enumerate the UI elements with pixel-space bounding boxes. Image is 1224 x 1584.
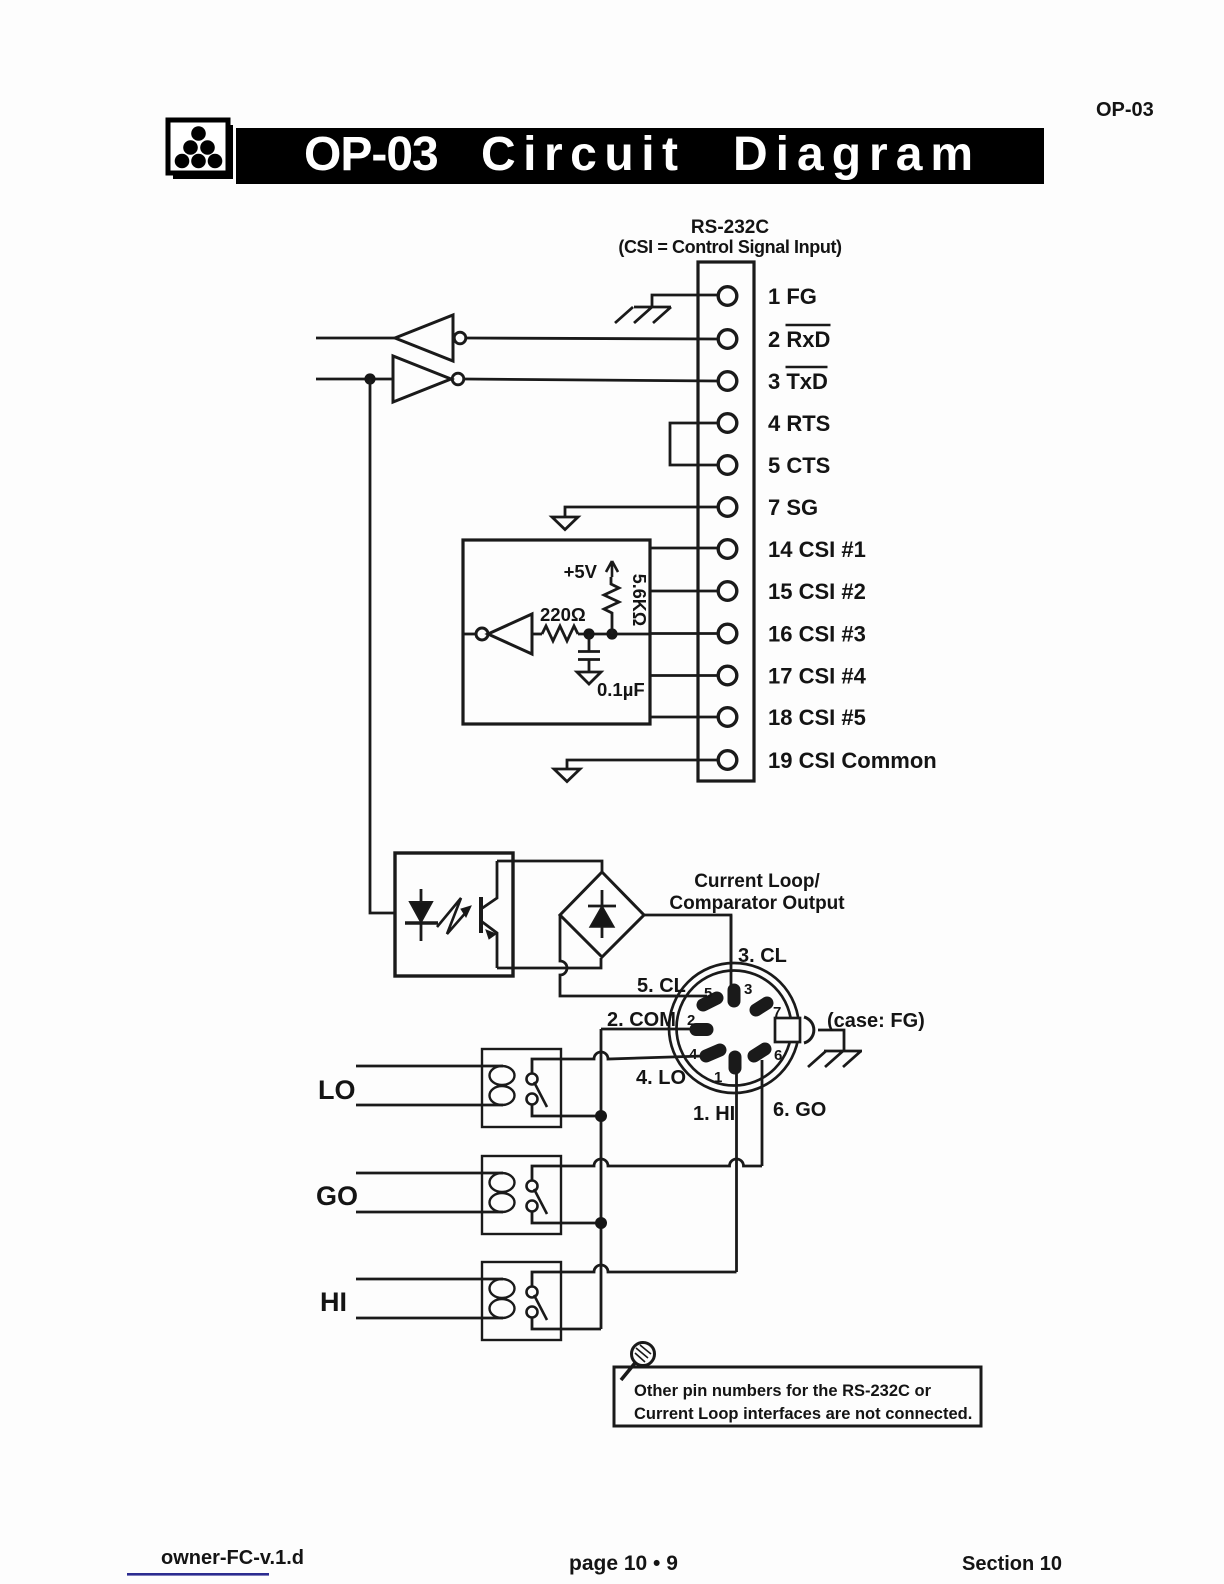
footer blue underline [127,1573,269,1576]
wire LO contact b to bus [532,1105,601,1117]
bridge diode lower lead [601,927,604,938]
svg-text:5: 5 [704,985,712,1002]
pin 3 [718,372,737,391]
overline RxD [786,324,831,327]
svg-text:(CSI = Control Signal Input): (CSI = Control Signal Input) [618,237,842,257]
DIN pin 7 [756,1003,767,1010]
pin 1 [718,287,737,306]
light arrows [437,898,468,934]
svg-text:4: 4 [689,1046,698,1063]
node bus LO [595,1110,607,1122]
node capacitor junction [583,628,594,639]
bubble CSI gate [476,628,488,640]
resistor 220ohm [542,626,578,641]
svg-text:14 CSI #1: 14 CSI #1 [768,537,866,562]
svg-text:owner-FC-v.1.d: owner-FC-v.1.d [161,1547,304,1569]
wire bridge left down with hop [560,915,707,996]
svg-text:7 SG: 7 SG [768,495,818,520]
overline TxD [786,366,828,369]
relay HI coil [490,1279,515,1298]
svg-text:OP-03: OP-03 [304,128,438,181]
pin 19 [718,751,737,770]
relay HI contact a [527,1287,538,1298]
wire box to pin 14 [650,547,718,550]
wire RxD from pin 2 [467,338,718,339]
wire box to pin 18 [650,716,718,719]
chassis ground case FG [808,1051,862,1067]
pin 4 [718,414,737,433]
wire bridge right to DIN pin3 [644,915,731,989]
light arrowhead [461,906,471,917]
svg-text:5 CTS: 5 CTS [768,453,830,478]
svg-text:4. LO: 4. LO [636,1067,686,1089]
svg-text:16 CSI #3: 16 CSI #3 [768,622,866,647]
emitter arrowhead [486,930,496,939]
wire box to pin 15 [650,590,718,593]
svg-text:page 10 • 9: page 10 • 9 [569,1552,678,1575]
svg-text:3 TxD: 3 TxD [768,369,828,394]
bridge diode bar [588,890,616,906]
wire emitter to bridge bottom [497,958,601,968]
note box [614,1367,981,1426]
relay LO coil [490,1066,515,1085]
relay LO contact b [527,1094,538,1105]
pin 18 [718,708,737,727]
resistor 5.6Kohm vertical [604,577,619,634]
svg-text:18 CSI #5: 18 CSI #5 [768,705,866,730]
wire RxD output left [316,337,395,340]
relay HI box [482,1262,561,1340]
bubble RxD gate [454,332,466,344]
pin 17 [718,666,737,685]
CSI input circuit box [463,540,650,724]
logo dot 5 [191,154,206,169]
svg-text:+5V: +5V [564,561,598,582]
relay HI coil wires [356,1279,503,1318]
node pullup junction [606,628,617,639]
relay GO switch arm [534,1189,547,1214]
relay LO box [482,1049,561,1127]
LED diode [410,902,432,922]
svg-text:6: 6 [774,1047,782,1064]
svg-text:OP-03: OP-03 [1096,99,1154,121]
signal ground capacitor [577,672,601,684]
svg-text:2 RxD: 2 RxD [768,327,830,352]
node TxD tap [364,373,375,384]
bridge rectifier diamond [560,872,644,957]
logo A&D shadow [173,125,233,179]
wire pin6 GO vertical [761,1060,764,1166]
relay HI switch arm [534,1295,547,1320]
DIN connector outer circle [669,963,799,1093]
svg-text:1. HI: 1. HI [693,1103,735,1125]
relay LO coil wires [356,1066,503,1105]
wire HI contact a with hop to pin1 wire [532,1265,737,1287]
jumper RTS-CTS [670,423,718,465]
svg-text:Section 10: Section 10 [962,1553,1062,1575]
svg-text:2: 2 [687,1012,695,1029]
phototransistor collector [481,861,497,909]
svg-text:220Ω: 220Ω [540,604,586,625]
svg-text:3: 3 [744,981,752,998]
svg-text:15 CSI #2: 15 CSI #2 [768,579,866,604]
svg-text:Other pin numbers for the RS-2: Other pin numbers for the RS-232C or [634,1382,932,1400]
svg-text:Circuit: Circuit [481,128,686,181]
svg-text:4 RTS: 4 RTS [768,411,830,436]
svg-text:6. GO: 6. GO [773,1099,826,1121]
svg-text:Diagram: Diagram [733,128,981,181]
wire GO contact b to bus [532,1212,601,1224]
wire box to pin 16 [650,632,718,635]
wire FG to ground [652,295,718,307]
wire HI contact b to bus end [532,1318,601,1330]
svg-text:5.6KΩ: 5.6KΩ [629,574,649,626]
phototransistor base bar [479,897,483,933]
logo dot 3 [200,140,215,155]
DIN pin 6 [754,1049,765,1056]
chassis ground FG [615,307,671,323]
wire pin1 HI vertical [735,1070,738,1272]
svg-text:5. CL: 5. CL [637,975,686,997]
relay LO switch arm [534,1082,547,1107]
connector J1 body [698,262,754,781]
pin 7 [718,498,737,517]
wire collector to bridge top [497,861,602,872]
phototransistor emitter [481,921,497,968]
bubble TxD gate [452,373,464,385]
DIN pin 1 [729,1057,742,1068]
svg-text:3. CL: 3. CL [738,945,787,967]
logo dot 1 [191,126,206,141]
DIN pin 4 [706,1050,720,1056]
svg-text:1 FG: 1 FG [768,284,817,309]
wire SG to ground [565,507,718,517]
pin 14 [718,540,737,559]
magnifier icon circle [632,1343,655,1366]
svg-text:7: 7 [773,1004,781,1021]
wire CSI common to ground [567,760,718,769]
svg-text:Current Loop interfaces are no: Current Loop interfaces are not connecte… [634,1405,972,1423]
pin 2 [718,330,737,349]
bridge diode triangle [590,906,614,927]
+5V arrow [606,561,618,577]
capacitor 0.1uF [578,634,600,672]
pin 5 [718,456,737,475]
title bar [236,128,1044,184]
DIN pin 2 [696,1023,707,1036]
inverter gate RxD receiver [395,315,453,361]
inverter gate CSI [488,614,532,654]
svg-text:Current Loop/: Current Loop/ [694,871,820,892]
wire GO contact a with hops to pin 6 [532,1159,762,1181]
DIN connector inner circle [677,971,792,1086]
magnifier handle [621,1363,635,1380]
wire case to ground [818,1030,844,1051]
node bus GO [595,1217,607,1229]
optocoupler box [395,853,513,976]
svg-text:19 CSI Common: 19 CSI Common [768,748,937,773]
relay LO contact a [527,1074,538,1085]
relay GO contact b [527,1201,538,1212]
relay GO coil wires [356,1173,503,1212]
relay GO box [482,1156,561,1234]
logo dot 4 [175,154,190,169]
relay GO contact a [527,1181,538,1192]
wire box to pin 17 [650,674,718,677]
svg-text:1: 1 [714,1069,722,1086]
wire COM from bus to pin 2 [601,1028,692,1031]
logo dot 2 [183,140,198,155]
wire gate to resistor [532,633,542,636]
inverter gate TxD driver [393,356,451,402]
relay GO coil [490,1173,515,1192]
LED anode wire [420,889,423,902]
LED cathode wire [420,923,423,941]
svg-text:GO: GO [316,1181,358,1211]
DIN notch [775,1018,800,1042]
svg-text:17 CSI #4: 17 CSI #4 [768,664,867,689]
signal ground CSI common [554,769,580,782]
wire LO contact a up-right with hop to pin 4 [532,1052,703,1074]
svg-text:Comparator Output: Comparator Output [669,893,845,914]
wire TxD input [316,378,393,381]
wire into pin 3 (over circle) [730,915,733,989]
relay HI contact b [527,1307,538,1318]
signal ground SG [552,517,578,530]
case contact arc [804,1017,814,1043]
DIN pin 5 [703,998,717,1005]
wire into pin 5 (over circle) [660,995,707,998]
logo A&D square [168,120,228,173]
LED cathode bar [405,921,438,924]
svg-text:0.1µF: 0.1µF [597,679,645,700]
svg-text:RS-232C: RS-232C [691,217,769,238]
magnifier hatch [635,1345,651,1362]
svg-text:HI: HI [320,1287,347,1317]
svg-text:(case: FG): (case: FG) [827,1010,925,1032]
vertical bus wire [600,1029,603,1329]
pin 16 [718,624,737,643]
pin 15 [718,582,737,601]
wire resistor to pin16 line [578,633,650,636]
wire TxD tap down to optocoupler [370,379,395,913]
DIN pin 3 [728,990,741,1001]
svg-text:LO: LO [318,1075,356,1105]
wire to CSI gate bubble [463,633,476,636]
wire TxD to pin 3 [465,379,718,381]
logo dot 6 [208,154,223,169]
